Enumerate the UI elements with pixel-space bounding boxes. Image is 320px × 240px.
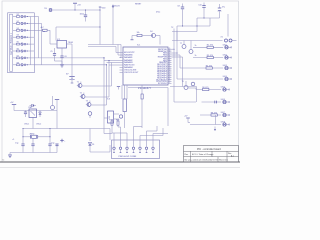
- switch S3: [13, 28, 34, 32]
- svg-text:3V: 3V: [66, 74, 69, 76]
- wire IC bottom bus: [122, 85, 168, 126]
- power flag P3: [131, 36, 134, 40]
- wire power net right: [172, 14, 228, 41]
- switch S2: [13, 21, 34, 25]
- svg-text:+5V: +5V: [10, 102, 14, 104]
- resistor array RN1: [123, 99, 126, 128]
- svg-text:RA1/AN1: RA1/AN1: [124, 56, 133, 59]
- svg-text:39: 39: [169, 50, 171, 52]
- resistor R19: [116, 119, 119, 127]
- switch S5: [13, 42, 34, 46]
- transistor Q1: [77, 82, 82, 88]
- connector JP1 PROG-ISP: [112, 140, 160, 159]
- svg-text:R4 470: R4 470: [206, 65, 212, 67]
- wire ISP nets: [112, 126, 168, 140]
- svg-text:27: 27: [169, 73, 171, 75]
- svg-text:Sheet 1/1: Sheet 1/1: [219, 159, 229, 162]
- svg-text:40: 40: [169, 48, 171, 50]
- wire right vertical drops: [172, 49, 224, 102]
- diode D2: [39, 111, 42, 118]
- battery B1 3V: [66, 44, 75, 83]
- svg-text:R2 470: R2 470: [207, 45, 213, 47]
- power flag P1 5V: [44, 8, 52, 12]
- capacitor C4: [55, 144, 58, 146]
- svg-text:10k: 10k: [137, 32, 140, 34]
- wire diode net: [57, 129, 110, 153]
- svg-text:+5V: +5V: [184, 116, 188, 118]
- svg-text:PROG-ISP CONN: PROG-ISP CONN: [119, 156, 137, 158]
- connector SV1 keypad box: [8, 13, 35, 73]
- svg-text:C8: C8: [177, 6, 179, 8]
- supply +5V T3: [55, 100, 59, 111]
- svg-text:47u: 47u: [222, 7, 225, 9]
- svg-text:IC2: IC2: [57, 39, 60, 41]
- svg-text:470u: 470u: [156, 12, 160, 14]
- resistor R18: [110, 119, 114, 133]
- svg-text:ECO # Date of Change: ECO # Date of Change: [192, 153, 214, 156]
- transistor Q9: [184, 81, 196, 90]
- capacitor C3: [31, 138, 34, 152]
- LED D10 row: [190, 122, 229, 127]
- svg-text:R19: R19: [116, 119, 119, 121]
- resistor R17: [141, 94, 143, 128]
- svg-text:37: 37: [169, 54, 171, 56]
- svg-text:22: 22: [169, 82, 171, 84]
- svg-text:Rev: Rev: [185, 154, 190, 156]
- LED D6 row: [223, 76, 231, 81]
- wire row102: [170, 87, 217, 104]
- switch S6: [13, 49, 34, 53]
- svg-text:4k7: 4k7: [41, 27, 44, 29]
- capacitor C7 100n: [80, 9, 88, 21]
- LED D5 row: [201, 65, 231, 70]
- svg-text:RE1: RE1: [29, 107, 33, 109]
- transistor Q5: [119, 115, 122, 118]
- resistor R20: [132, 32, 152, 37]
- svg-text:26: 26: [169, 75, 171, 77]
- LED D8 row: [202, 99, 230, 104]
- switch S1: [13, 14, 34, 18]
- svg-text:78L05: 78L05: [68, 42, 73, 44]
- svg-text:C6: C6: [64, 56, 66, 58]
- transistor Q6: [51, 96, 55, 110]
- svg-text:15p: 15p: [51, 143, 54, 145]
- wire top rail: [52, 10, 100, 41]
- svg-text:34: 34: [169, 59, 171, 61]
- svg-text:29: 29: [169, 69, 171, 71]
- svg-text:T2: T2: [80, 93, 82, 95]
- svg-text:35: 35: [169, 57, 171, 59]
- svg-text:33: 33: [169, 61, 171, 63]
- svg-text:IC1: IC1: [137, 45, 141, 47]
- svg-text:MCLR: MCLR: [114, 6, 120, 8]
- IC3 driver: [104, 99, 119, 124]
- svg-text:C5: C5: [50, 51, 52, 53]
- supply flag T4: [117, 87, 120, 90]
- transistor Q3: [86, 101, 91, 107]
- svg-text:D4: D4: [150, 31, 152, 33]
- switch S7: [13, 55, 34, 59]
- regulator IC2 78L05: [54, 39, 74, 48]
- ground GND1: [55, 61, 65, 67]
- svg-text:R3 470: R3 470: [207, 55, 213, 57]
- svg-text:+5V: +5V: [77, 4, 81, 6]
- capacitor C9: [24, 111, 27, 118]
- wire uplink right bus: [171, 27, 177, 53]
- wire led col join: [214, 115, 216, 131]
- resistor R1 4k7: [41, 27, 51, 44]
- supply +5V arrow T: [73, 3, 81, 10]
- svg-text:fe: fe: [3, 160, 6, 162]
- svg-text:IC3: IC3: [107, 99, 110, 101]
- relay K1: [29, 107, 37, 118]
- wire Q2 out: [85, 96, 109, 98]
- transistor Q8: [189, 41, 193, 54]
- svg-text:RESET: RESET: [135, 4, 142, 6]
- wire relay rail: [14, 111, 57, 129]
- wire Q3 out: [91, 104, 107, 106]
- svg-text:36: 36: [169, 56, 171, 58]
- capacitor C6: [60, 48, 66, 64]
- svg-text:OSC2/CLKOUT: OSC2/CLKOUT: [124, 72, 139, 74]
- svg-text:1k: 1k: [195, 55, 197, 57]
- svg-text:D1: D1: [92, 144, 94, 146]
- transistor Q10: [182, 81, 195, 86]
- node MCLR riser: [112, 5, 120, 45]
- capacitor C2 15p: [48, 143, 54, 153]
- svg-text:30: 30: [169, 67, 171, 69]
- LED D9 row: [200, 112, 229, 117]
- svg-text:C10: C10: [198, 5, 201, 7]
- capacitor C11 elco: [218, 4, 225, 18]
- transistor Q2: [80, 93, 85, 99]
- svg-text:file: pic-control.sch 03.06.2: file: pic-control.sch 03.06.2002 19:37: [185, 159, 220, 162]
- transistor Q7: [180, 41, 186, 49]
- wire bus staircase: [88, 45, 121, 134]
- svg-text:28: 28: [169, 71, 171, 73]
- svg-text:OSC1: OSC1: [24, 123, 29, 125]
- svg-text:31: 31: [169, 65, 171, 67]
- svg-text:R8 470: R8 470: [211, 112, 217, 114]
- svg-text:+: +: [64, 140, 66, 142]
- node VDD riser: [99, 7, 106, 45]
- wire keypad bus: [31, 17, 107, 65]
- crystal X2 4MHz: [22, 133, 50, 138]
- svg-text:T9: T9: [182, 81, 184, 83]
- svg-text:RC5/SDO: RC5/SDO: [158, 83, 168, 85]
- svg-text:R6 470: R6 470: [202, 87, 208, 89]
- svg-text:T3: T3: [86, 101, 88, 103]
- ground GND2: [8, 153, 12, 158]
- LED D7 row: [196, 87, 229, 92]
- svg-text:VDD: VDD: [102, 8, 107, 10]
- connector X1 power jack: [221, 36, 237, 42]
- switch S8: [13, 62, 34, 66]
- svg-text:OSC2: OSC2: [36, 123, 41, 125]
- transistor Q4: [88, 112, 92, 118]
- svg-text:TX: TX: [171, 27, 174, 29]
- LED D4 row: [193, 55, 231, 60]
- svg-text:PIC16F877: PIC16F877: [138, 86, 152, 90]
- svg-text:25: 25: [169, 76, 171, 78]
- IC1 PIC16F877: [120, 45, 172, 90]
- svg-text:R18: R18: [110, 119, 113, 121]
- svg-text:T1: T1: [77, 82, 79, 84]
- diode D1: [89, 129, 95, 153]
- capacitor C10: [198, 3, 206, 19]
- svg-text:23: 23: [169, 80, 171, 82]
- svg-text:5V: 5V: [44, 8, 47, 10]
- capacitor C1 15p: [15, 143, 24, 153]
- diode D4: [150, 31, 160, 45]
- svg-text:1k: 1k: [195, 45, 197, 47]
- capacitor C8: [177, 4, 184, 27]
- supply flag bottom right: [184, 116, 190, 123]
- svg-text:38: 38: [169, 52, 171, 54]
- diode D3 flyback: [30, 104, 37, 106]
- switch S4: [13, 35, 34, 39]
- supply +5V T2: [10, 102, 16, 110]
- svg-text:15p: 15p: [15, 143, 18, 145]
- wire Q1 out: [82, 85, 112, 87]
- capacitor C5: [50, 48, 56, 61]
- svg-text:PIC - controller board: PIC - controller board: [197, 148, 221, 151]
- LED D3 row: [193, 44, 231, 49]
- wire osc rail top: [22, 123, 57, 144]
- svg-text:32: 32: [169, 63, 171, 65]
- svg-text:A 1: A 1: [231, 154, 234, 157]
- svg-text:T7: T7: [180, 43, 182, 45]
- power flag P2: [60, 139, 66, 143]
- svg-text:X1: X1: [221, 36, 223, 38]
- wire R1 to IC2: [50, 43, 54, 45]
- svg-text:+5: +5: [12, 139, 14, 141]
- svg-text:KEYPAD - BOARD 1: KEYPAD - BOARD 1: [10, 32, 13, 55]
- svg-text:24: 24: [169, 78, 171, 80]
- title block: [184, 146, 239, 163]
- wire gnd rail: [10, 144, 57, 153]
